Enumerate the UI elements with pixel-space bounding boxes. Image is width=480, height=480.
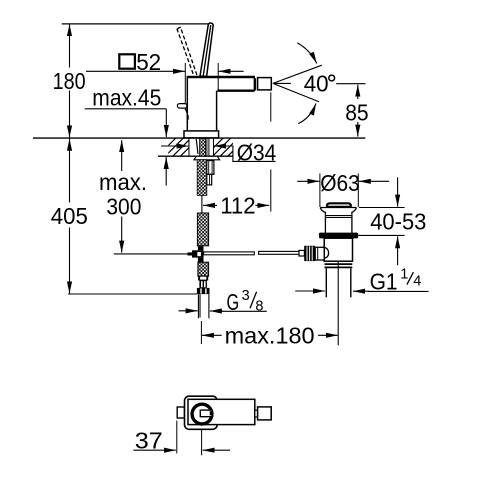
pop-up rod guide below deck xyxy=(207,161,214,185)
dim G1 1/4 xyxy=(295,290,428,292)
dim max.300 vertical xyxy=(121,140,123,252)
dim 180 vertical xyxy=(69,24,71,137)
dim 405 vertical xyxy=(69,139,71,294)
top view: logo ring xyxy=(192,404,212,424)
valve flare top line xyxy=(320,207,357,209)
svg-text:1: 1 xyxy=(400,267,408,283)
dim Ø34 xyxy=(161,146,276,161)
top view: handle square xyxy=(185,396,218,429)
svg-text:G: G xyxy=(227,289,240,315)
cable arc on body xyxy=(324,247,329,258)
faucet body xyxy=(187,77,255,131)
svg-text:Ø63: Ø63 xyxy=(320,170,360,196)
svg-text:4: 4 xyxy=(413,274,421,290)
hose arc in hole xyxy=(196,139,198,154)
pop-up rod in hole xyxy=(206,139,208,157)
valve flare sides xyxy=(320,208,325,215)
ext lines 52 xyxy=(184,63,186,103)
lever alternate position (dashed) xyxy=(177,29,197,75)
dim 52 horizontal xyxy=(86,70,244,72)
deck hatch right xyxy=(205,138,246,156)
tailpipe centerline / ext line xyxy=(337,262,339,345)
svg-text:max.45: max.45 xyxy=(92,84,161,110)
deck hatch left xyxy=(150,138,199,156)
valve neck xyxy=(325,215,352,233)
svg-text:300: 300 xyxy=(106,193,141,219)
svg-text:G1: G1 xyxy=(370,269,398,295)
svg-text:405: 405 xyxy=(51,203,88,229)
hole edges xyxy=(188,138,190,156)
deck underside line xyxy=(158,155,233,157)
hose nut xyxy=(197,288,210,294)
flexible hose upper segment xyxy=(197,213,208,246)
top view: logo bar xyxy=(200,410,212,417)
base flange xyxy=(184,131,219,138)
svg-text:8: 8 xyxy=(255,299,263,315)
hose collar xyxy=(198,276,208,281)
tailpipe xyxy=(325,268,327,297)
valve bottom rim xyxy=(325,263,353,265)
mounting washer under deck xyxy=(194,156,220,160)
label square 52 xyxy=(119,54,135,68)
knob collar xyxy=(315,247,324,260)
spray fan lines xyxy=(273,65,322,102)
svg-text:112: 112 xyxy=(220,193,255,219)
valve knob (black, ribbed) xyxy=(304,246,315,261)
valve seal flange (black) xyxy=(319,233,358,239)
dim max.180 xyxy=(202,334,338,336)
dim 37 xyxy=(176,421,178,454)
top view: side tab xyxy=(177,407,184,418)
rod clamp block xyxy=(198,246,204,250)
dim 112 xyxy=(203,204,269,206)
threaded shank below deck xyxy=(197,160,207,196)
svg-text:Ø34: Ø34 xyxy=(237,140,277,166)
reference line hose end (405 bottom) xyxy=(68,293,197,295)
flexible hose lower segment xyxy=(198,262,209,276)
dome brim line xyxy=(326,205,352,207)
G3/8 nipple xyxy=(198,294,209,318)
dim 40-53 xyxy=(358,177,404,265)
top view: body xyxy=(188,399,255,424)
spout xyxy=(217,78,271,92)
top view: spout joint xyxy=(255,410,258,417)
svg-text:180: 180 xyxy=(53,68,86,94)
side tab on body xyxy=(177,104,187,109)
angle arc arrows 40° xyxy=(297,43,317,64)
drain valve: dome plug xyxy=(327,203,351,206)
dim G3/8 xyxy=(179,310,267,313)
svg-text:max.180: max.180 xyxy=(225,323,315,349)
svg-text:40: 40 xyxy=(304,71,329,97)
spout tip extension line xyxy=(270,92,272,121)
lever handle (solid) xyxy=(200,23,213,76)
top view: spout tip xyxy=(258,407,272,420)
tab alternate (dashed arc) xyxy=(185,109,188,123)
top reference line xyxy=(62,23,212,25)
dim 85 xyxy=(357,85,359,137)
svg-text:3: 3 xyxy=(242,288,250,304)
dim Ø63 xyxy=(319,174,321,208)
svg-text:40-53: 40-53 xyxy=(370,209,426,235)
deck mounting surface line xyxy=(33,137,365,139)
svg-text:85: 85 xyxy=(345,99,368,125)
svg-text:max.: max. xyxy=(99,169,147,195)
valve body xyxy=(324,238,352,261)
svg-text:37: 37 xyxy=(135,428,163,454)
break line (shank to hose) xyxy=(201,196,203,213)
threaded shank in hole xyxy=(200,139,206,157)
reference line rod level / pull rod left xyxy=(114,253,193,255)
pop-up linkage rod (horizontal, with break) xyxy=(204,252,255,255)
ext line faucet axis (max.180) xyxy=(200,321,202,344)
hose end body xyxy=(199,281,207,288)
